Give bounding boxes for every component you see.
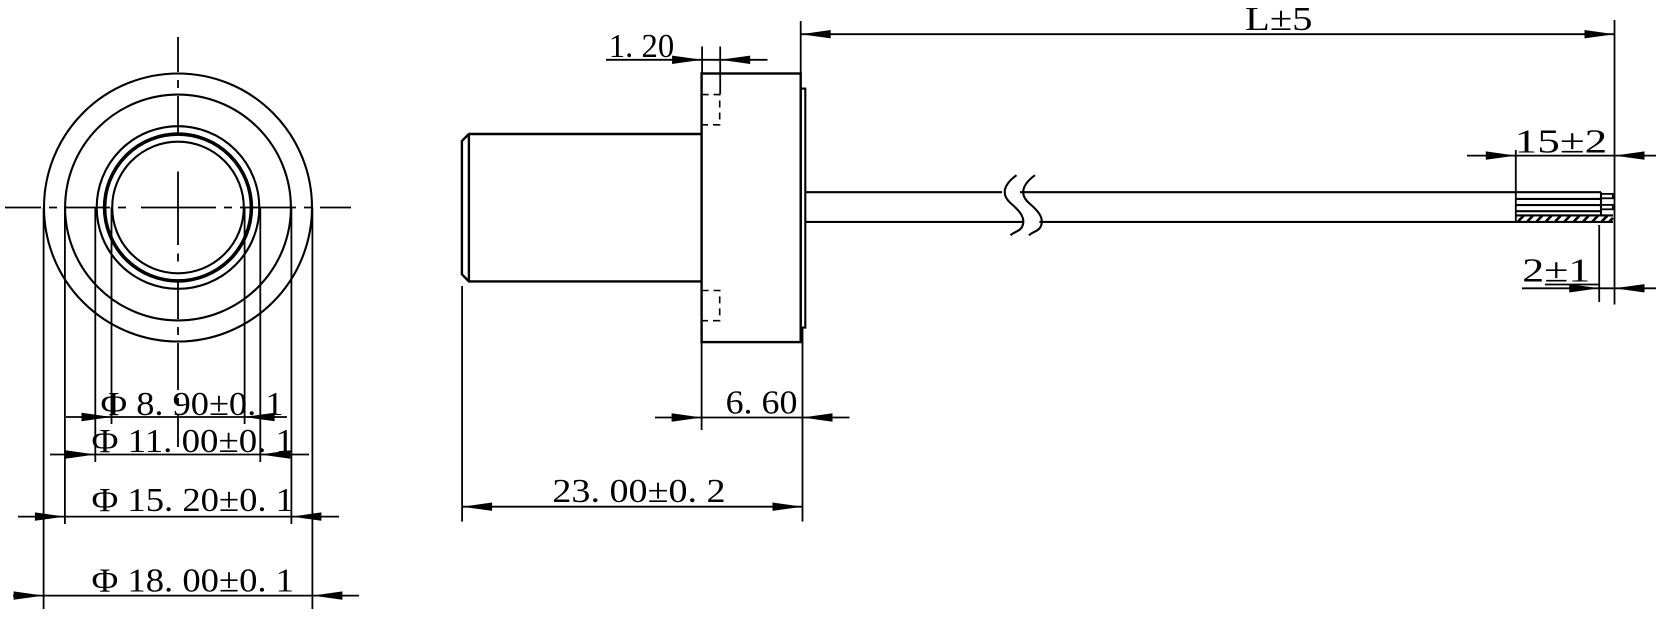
cable bottom line — [805, 221, 1613, 223]
dimension Φ18.00±0.1 right arrow — [312, 591, 342, 599]
dimension 15±2 line — [1467, 155, 1656, 157]
dimension 23.00±0.2 line — [462, 506, 802, 508]
cable break curve right — [1023, 175, 1042, 235]
dimension Φ8.90±0.1 line — [66, 416, 287, 418]
svg-text:15±2: 15±2 — [1515, 124, 1608, 161]
front view: outer circle Φ18 — [44, 74, 312, 342]
extension line Φ15.2 left — [64, 208, 66, 525]
dimension 6.60 right arrow — [803, 413, 833, 421]
front view: inner circle Φ8.9 — [112, 142, 244, 274]
side view: hidden slot top — [702, 95, 720, 125]
dimension 2±1 right arrow — [1615, 284, 1645, 292]
dimension L±5 line — [801, 33, 1615, 35]
dimension 2±1 left extension line — [1598, 225, 1600, 302]
svg-text:Φ 15. 20±0. 1: Φ 15. 20±0. 1 — [92, 482, 295, 519]
dimension 2±1 left arrow — [1569, 284, 1599, 292]
svg-text:1. 20: 1. 20 — [609, 28, 674, 65]
svg-text:Φ 11. 00±0. 1: Φ 11. 00±0. 1 — [92, 423, 295, 460]
svg-text:2±1: 2±1 — [1522, 253, 1590, 290]
dimension L±5 right extension line — [1614, 20, 1616, 305]
dimension Φ15.20±0.1 left arrow — [35, 512, 65, 520]
front view: circle Φ15.2 — [65, 95, 291, 321]
dimension 6.60 left extension line — [701, 343, 703, 430]
dimension 23.00±0.2 right arrow — [773, 503, 803, 511]
dimension 6.60 / 23.00 right extension line — [802, 328, 804, 522]
dimension Φ18.00±0.1 line — [13, 595, 359, 597]
dimension Φ15.20±0.1 line — [18, 516, 339, 518]
dimension Φ8.90±0.1 right arrow — [245, 413, 275, 421]
wire tip upper — [1601, 194, 1613, 198]
stripped cable section wire line 2 — [1516, 204, 1601, 206]
side view: barrel outline with chamfer — [462, 134, 702, 281]
svg-text:Φ 8. 90±0. 1: Φ 8. 90±0. 1 — [101, 386, 284, 423]
dimension Φ11.00±0.1 right arrow — [260, 450, 290, 458]
dimension 1.20 left arrow — [672, 56, 702, 64]
extension line Φ11 left — [94, 208, 96, 463]
side view: flange rectangle — [702, 74, 801, 343]
dimension 1.20 left extension line — [701, 47, 703, 74]
dimension 1.20 right extension line — [719, 47, 721, 95]
hatch band diagonal lines — [1518, 216, 1613, 222]
dimension 15±2 left extension line — [1515, 150, 1517, 222]
dimension Φ11.00±0.1 line — [50, 454, 309, 456]
svg-text:6. 60: 6. 60 — [726, 385, 798, 422]
dimension 15±2 left arrow — [1486, 151, 1516, 159]
dimension 2±1 text underline — [1545, 284, 1599, 286]
dimension L±5 left arrow — [801, 30, 831, 38]
extension line Φ8.9 right — [244, 208, 246, 425]
side view: hidden slot bottom — [702, 291, 720, 321]
dimension 23.00±0.2 left extension line — [461, 286, 463, 522]
dimension Φ15.20±0.1 right arrow — [291, 512, 321, 520]
stripped cable section hatch top line — [1516, 214, 1613, 216]
svg-text:L±5: L±5 — [1245, 1, 1313, 38]
front view: horizontal centerline — [5, 207, 351, 209]
svg-text:Φ 18. 00±0. 1: Φ 18. 00±0. 1 — [92, 563, 295, 600]
dimension 15±2 right arrow — [1615, 151, 1645, 159]
dimension L±5 right arrow — [1585, 30, 1615, 38]
svg-text:23. 00±0. 2: 23. 00±0. 2 — [552, 473, 725, 510]
dimension 1.20 right arrow — [720, 56, 750, 64]
stripped cable jacket end vertical — [1600, 192, 1602, 215]
side view: barrel chamfer edge line — [468, 134, 470, 281]
dimension Φ8.90±0.1 left arrow — [82, 413, 112, 421]
front view: circle Φ11 — [97, 126, 260, 289]
front view: barrel circle (thick) — [105, 134, 252, 281]
cable break curve left — [1005, 175, 1024, 235]
extension line Φ18 right — [311, 208, 313, 610]
stripped cable section wire line 1 — [1516, 198, 1601, 200]
dimension 23.00±0.2 left arrow — [462, 503, 492, 511]
dimension Φ18.00±0.1 left arrow — [14, 591, 44, 599]
dimension 6.60 left arrow — [672, 413, 702, 421]
extension line Φ11 right — [259, 208, 261, 463]
wire tip lower — [1601, 205, 1613, 209]
dimension L±5 left extension line — [800, 21, 802, 74]
dimension 6.60 line — [655, 417, 850, 419]
dimension Φ11.00±0.1 left arrow — [65, 450, 95, 458]
extension line Φ15.2 right — [290, 208, 292, 525]
front view: vertical centerline — [177, 37, 179, 447]
dimension 2±1 line — [1522, 287, 1656, 289]
side view: rear washer strip — [801, 89, 806, 328]
extension line Φ8.9 left — [111, 208, 113, 425]
dimension 1.20 line — [606, 59, 768, 61]
stripped cable section wire line 3 — [1516, 210, 1601, 212]
extension line Φ18 left — [43, 208, 45, 610]
cable top line — [805, 191, 1601, 193]
